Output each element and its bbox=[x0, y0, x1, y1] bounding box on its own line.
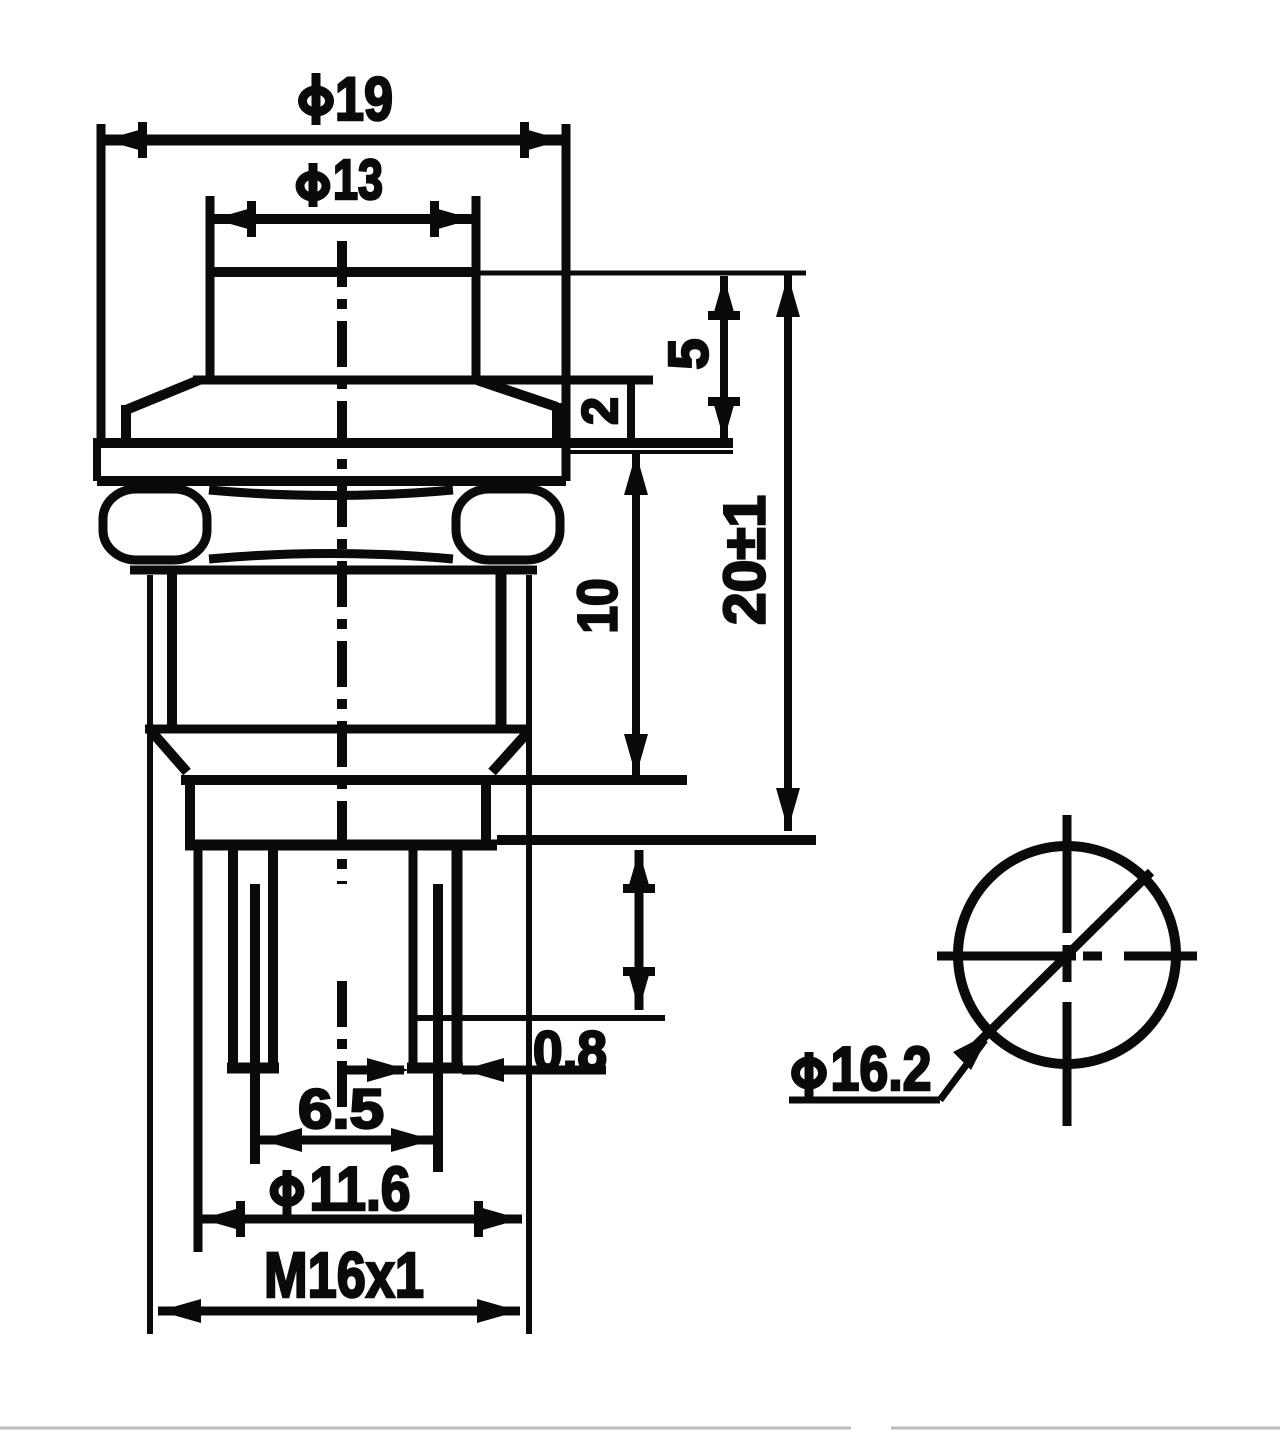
hex nut right corner bbox=[456, 489, 560, 560]
dim phi19 line bbox=[101, 135, 566, 146]
unlabeled terminal-length dim line bbox=[635, 850, 644, 1010]
dim phi11.6 arrow right bbox=[479, 1207, 521, 1231]
dim phi19 extension right bbox=[562, 124, 571, 481]
right terminal bottom bbox=[407, 1063, 463, 1074]
dim 10 arrow bottom bbox=[624, 734, 648, 776]
left terminal bottom bbox=[227, 1063, 279, 1074]
left terminal middle line bbox=[250, 884, 260, 1164]
dim 6.5 label bbox=[298, 1077, 384, 1140]
circle horizontal centerline bbox=[937, 952, 1197, 961]
cap flare top edge + ext for dim 2 bbox=[193, 376, 653, 385]
right terminal left edge bbox=[409, 850, 418, 1063]
dim 2 label bbox=[572, 397, 628, 425]
barrel bottom bbox=[145, 725, 531, 734]
housing left side bbox=[185, 780, 195, 850]
cap flare left side bbox=[121, 405, 131, 447]
dim phi11.6 arrow left bbox=[201, 1207, 243, 1231]
cap flare diagonal right bbox=[477, 380, 557, 407]
dim phi13 arrow left bbox=[213, 207, 255, 231]
barrel left side bbox=[167, 570, 177, 729]
dim 0.8 tail right bbox=[462, 1066, 606, 1075]
svg-text:M16x1: M16x1 bbox=[264, 1239, 424, 1311]
button cap top bbox=[206, 267, 480, 277]
dim phi13 label bbox=[333, 148, 383, 212]
dim 5 arrow top bbox=[712, 277, 736, 319]
leader underline bbox=[789, 1097, 940, 1104]
housing top bbox=[181, 775, 687, 785]
extension line right of housing bottom bbox=[497, 835, 816, 845]
panel cutout circle bbox=[958, 846, 1176, 1064]
left terminal right edge bbox=[268, 850, 278, 1063]
svg-text:19: 19 bbox=[335, 65, 393, 133]
right terminal middle line bbox=[433, 884, 443, 1172]
housing right side bbox=[481, 780, 491, 850]
dim phi19 label bbox=[335, 65, 393, 133]
svg-text:20±1: 20±1 bbox=[713, 495, 778, 625]
dim phi19 arrow left bbox=[104, 128, 146, 152]
centerline of switch bbox=[337, 241, 347, 884]
terminal-length dim arrow top bbox=[627, 850, 651, 892]
circle vertical centerline bbox=[1063, 815, 1072, 1126]
extension line terminal bottom right bbox=[412, 1015, 665, 1021]
flange bottom bbox=[97, 476, 566, 486]
cap flare diagonal left bbox=[126, 380, 199, 410]
svg-text:13: 13 bbox=[333, 148, 383, 212]
dim 2 line bbox=[627, 380, 635, 443]
dim 6.5 arrow right bbox=[391, 1128, 433, 1152]
dim 0.8 label bbox=[533, 1019, 607, 1082]
dim M16x1 arrow right bbox=[477, 1299, 519, 1323]
dim 20+-1 label bbox=[713, 495, 778, 625]
leader arrowhead bbox=[953, 1033, 990, 1070]
faint scan artifact line bottom bbox=[0, 1427, 851, 1430]
dim 10 label bbox=[566, 579, 629, 634]
flange left edge bbox=[93, 443, 101, 481]
housing bottom plate bbox=[185, 840, 497, 851]
hex nut center facet bottom arc bbox=[209, 554, 453, 560]
leader diagonal bbox=[940, 1040, 985, 1100]
terminal-length dim arrow bottom bbox=[627, 968, 651, 1010]
dim phi11.6 line bbox=[200, 1215, 522, 1224]
right terminal right edge bbox=[452, 850, 463, 1066]
thread line left / M16 extension left bbox=[147, 575, 153, 1334]
dim 6.5 arrow left bbox=[260, 1128, 302, 1152]
dim 6.5 line bbox=[260, 1136, 433, 1145]
dim 0.8 arrow right bbox=[462, 1058, 504, 1082]
skirt chamfer left bbox=[152, 732, 187, 772]
dim phi11.6 label bbox=[310, 1155, 411, 1224]
flange top bbox=[93, 438, 733, 448]
extension line right of cap top bbox=[480, 271, 806, 276]
dim 5 arrow bottom bbox=[712, 398, 736, 440]
dim 20+-1 arrow bottom bbox=[776, 788, 800, 830]
dim phi19 arrow right bbox=[521, 128, 563, 152]
dim phi11.6 extension left bbox=[194, 850, 203, 1252]
hex nut bottom line bbox=[130, 566, 537, 575]
dim phi16.2 label bbox=[831, 1035, 932, 1104]
skirt chamfer right bbox=[492, 732, 528, 772]
dim phi19 extension left bbox=[97, 124, 106, 443]
dim 0.8 tail left bbox=[345, 1066, 404, 1075]
dim phi13 arrow right bbox=[431, 207, 473, 231]
dim phi13 extension left bbox=[206, 196, 215, 377]
dim 0.8 arrow left bbox=[367, 1058, 409, 1082]
dim phi13 extension right bbox=[472, 196, 481, 377]
dim 20+-1 line bbox=[784, 274, 792, 831]
svg-text:11.6: 11.6 bbox=[310, 1155, 411, 1224]
svg-text:5: 5 bbox=[657, 338, 720, 369]
dim 5 label bbox=[657, 338, 720, 369]
thin line under flange top right bbox=[567, 450, 733, 454]
dim 5 line bbox=[720, 276, 728, 441]
dim M16x1 label bbox=[264, 1239, 424, 1311]
svg-text:2: 2 bbox=[572, 397, 628, 425]
barrel right side bbox=[496, 570, 507, 729]
circle diagonal line bbox=[976, 872, 1151, 1045]
svg-text:16.2: 16.2 bbox=[831, 1035, 932, 1104]
dim phi13 line bbox=[210, 214, 476, 224]
left terminal left edge bbox=[228, 850, 238, 1063]
hex nut center facet top arc bbox=[209, 490, 453, 496]
dim 10 line bbox=[632, 453, 640, 776]
dim M16x1 line bbox=[158, 1307, 520, 1316]
cap flare right side bbox=[552, 403, 562, 447]
svg-text:6.5: 6.5 bbox=[298, 1077, 384, 1140]
thread line right / M16 extension right bbox=[526, 575, 532, 1334]
svg-text:10: 10 bbox=[566, 579, 629, 634]
dim 10 arrow top bbox=[624, 453, 648, 495]
dim 20+-1 arrow top bbox=[776, 275, 800, 317]
hex nut left corner bbox=[103, 489, 207, 560]
dim M16x1 arrow left bbox=[159, 1299, 201, 1323]
